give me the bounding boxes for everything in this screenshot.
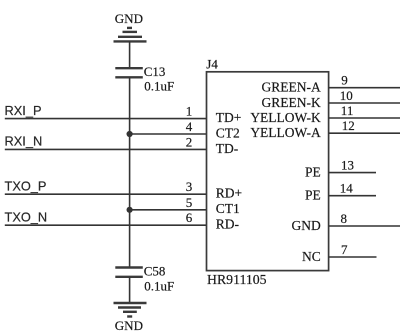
svg-text:CT2: CT2: [216, 125, 240, 140]
svg-text:C13: C13: [144, 64, 166, 79]
svg-text:0.1uF: 0.1uF: [144, 279, 174, 294]
svg-text:NC: NC: [302, 249, 321, 264]
svg-text:TD+: TD+: [216, 110, 242, 125]
svg-text:GND: GND: [115, 11, 143, 26]
svg-text:1: 1: [186, 104, 193, 119]
svg-text:TXO_N: TXO_N: [5, 209, 48, 224]
wire pin 14: [329, 195, 376, 197]
wire TXO_N to pin 6: [5, 224, 207, 226]
capacitor C58: [115, 268, 143, 277]
wire C58 to ground: [129, 277, 131, 303]
svg-text:GND: GND: [115, 318, 143, 333]
svg-text:7: 7: [341, 242, 348, 257]
svg-text:PE: PE: [305, 188, 321, 203]
svg-text:RD-: RD-: [216, 217, 240, 232]
vertical bus wire C13 to C58: [129, 77, 131, 267]
svg-text:GREEN-K: GREEN-K: [262, 95, 321, 110]
wire bus to pin 4: [130, 133, 207, 135]
svg-text:CT1: CT1: [216, 201, 240, 216]
wire pin 13: [329, 172, 376, 174]
svg-text:5: 5: [186, 195, 193, 210]
svg-text:9: 9: [341, 73, 348, 88]
svg-text:C58: C58: [144, 263, 166, 278]
svg-text:12: 12: [342, 118, 355, 133]
svg-text:8: 8: [341, 211, 348, 226]
wire pin 8: [329, 225, 400, 227]
wire pin 12: [329, 132, 400, 134]
svg-text:13: 13: [341, 158, 354, 173]
svg-text:J4: J4: [206, 56, 218, 71]
wire pin 9: [329, 87, 400, 89]
wire bus to pin 5: [130, 209, 207, 211]
ground symbol top: [114, 28, 147, 42]
connector J4 body: [207, 72, 329, 271]
svg-text:YELLOW-K: YELLOW-K: [250, 110, 321, 125]
svg-text:3: 3: [186, 179, 193, 194]
wire TXO_P to pin 3: [5, 193, 207, 195]
svg-text:YELLOW-A: YELLOW-A: [250, 125, 321, 140]
svg-text:TD-: TD-: [216, 141, 239, 156]
wire ground to C13: [129, 41, 131, 68]
svg-text:GND: GND: [292, 218, 321, 233]
svg-text:RXI_N: RXI_N: [5, 134, 43, 149]
svg-text:14: 14: [340, 181, 354, 196]
svg-text:10: 10: [340, 88, 353, 103]
wire RXI_P to pin 1: [5, 118, 207, 120]
wire RXI_N to pin 2: [5, 148, 207, 150]
svg-text:PE: PE: [305, 165, 321, 180]
svg-text:GREEN-A: GREEN-A: [262, 80, 321, 95]
junction on pin 4 wire: [127, 131, 133, 137]
ground symbol bottom: [114, 303, 147, 317]
svg-text:0.1uF: 0.1uF: [144, 78, 174, 93]
svg-text:RXI_P: RXI_P: [5, 103, 42, 118]
svg-text:HR911105: HR911105: [207, 272, 267, 287]
wire pin 10: [329, 102, 400, 104]
svg-text:4: 4: [186, 119, 193, 134]
junction on pin 5 wire: [127, 207, 133, 213]
svg-text:11: 11: [341, 103, 354, 118]
svg-text:RD+: RD+: [216, 186, 242, 201]
wire pin 7: [329, 256, 377, 258]
svg-text:TXO_P: TXO_P: [5, 178, 47, 193]
svg-text:6: 6: [186, 210, 193, 225]
svg-text:2: 2: [186, 134, 193, 149]
wire pin 11: [329, 117, 400, 119]
capacitor C13: [115, 68, 143, 77]
